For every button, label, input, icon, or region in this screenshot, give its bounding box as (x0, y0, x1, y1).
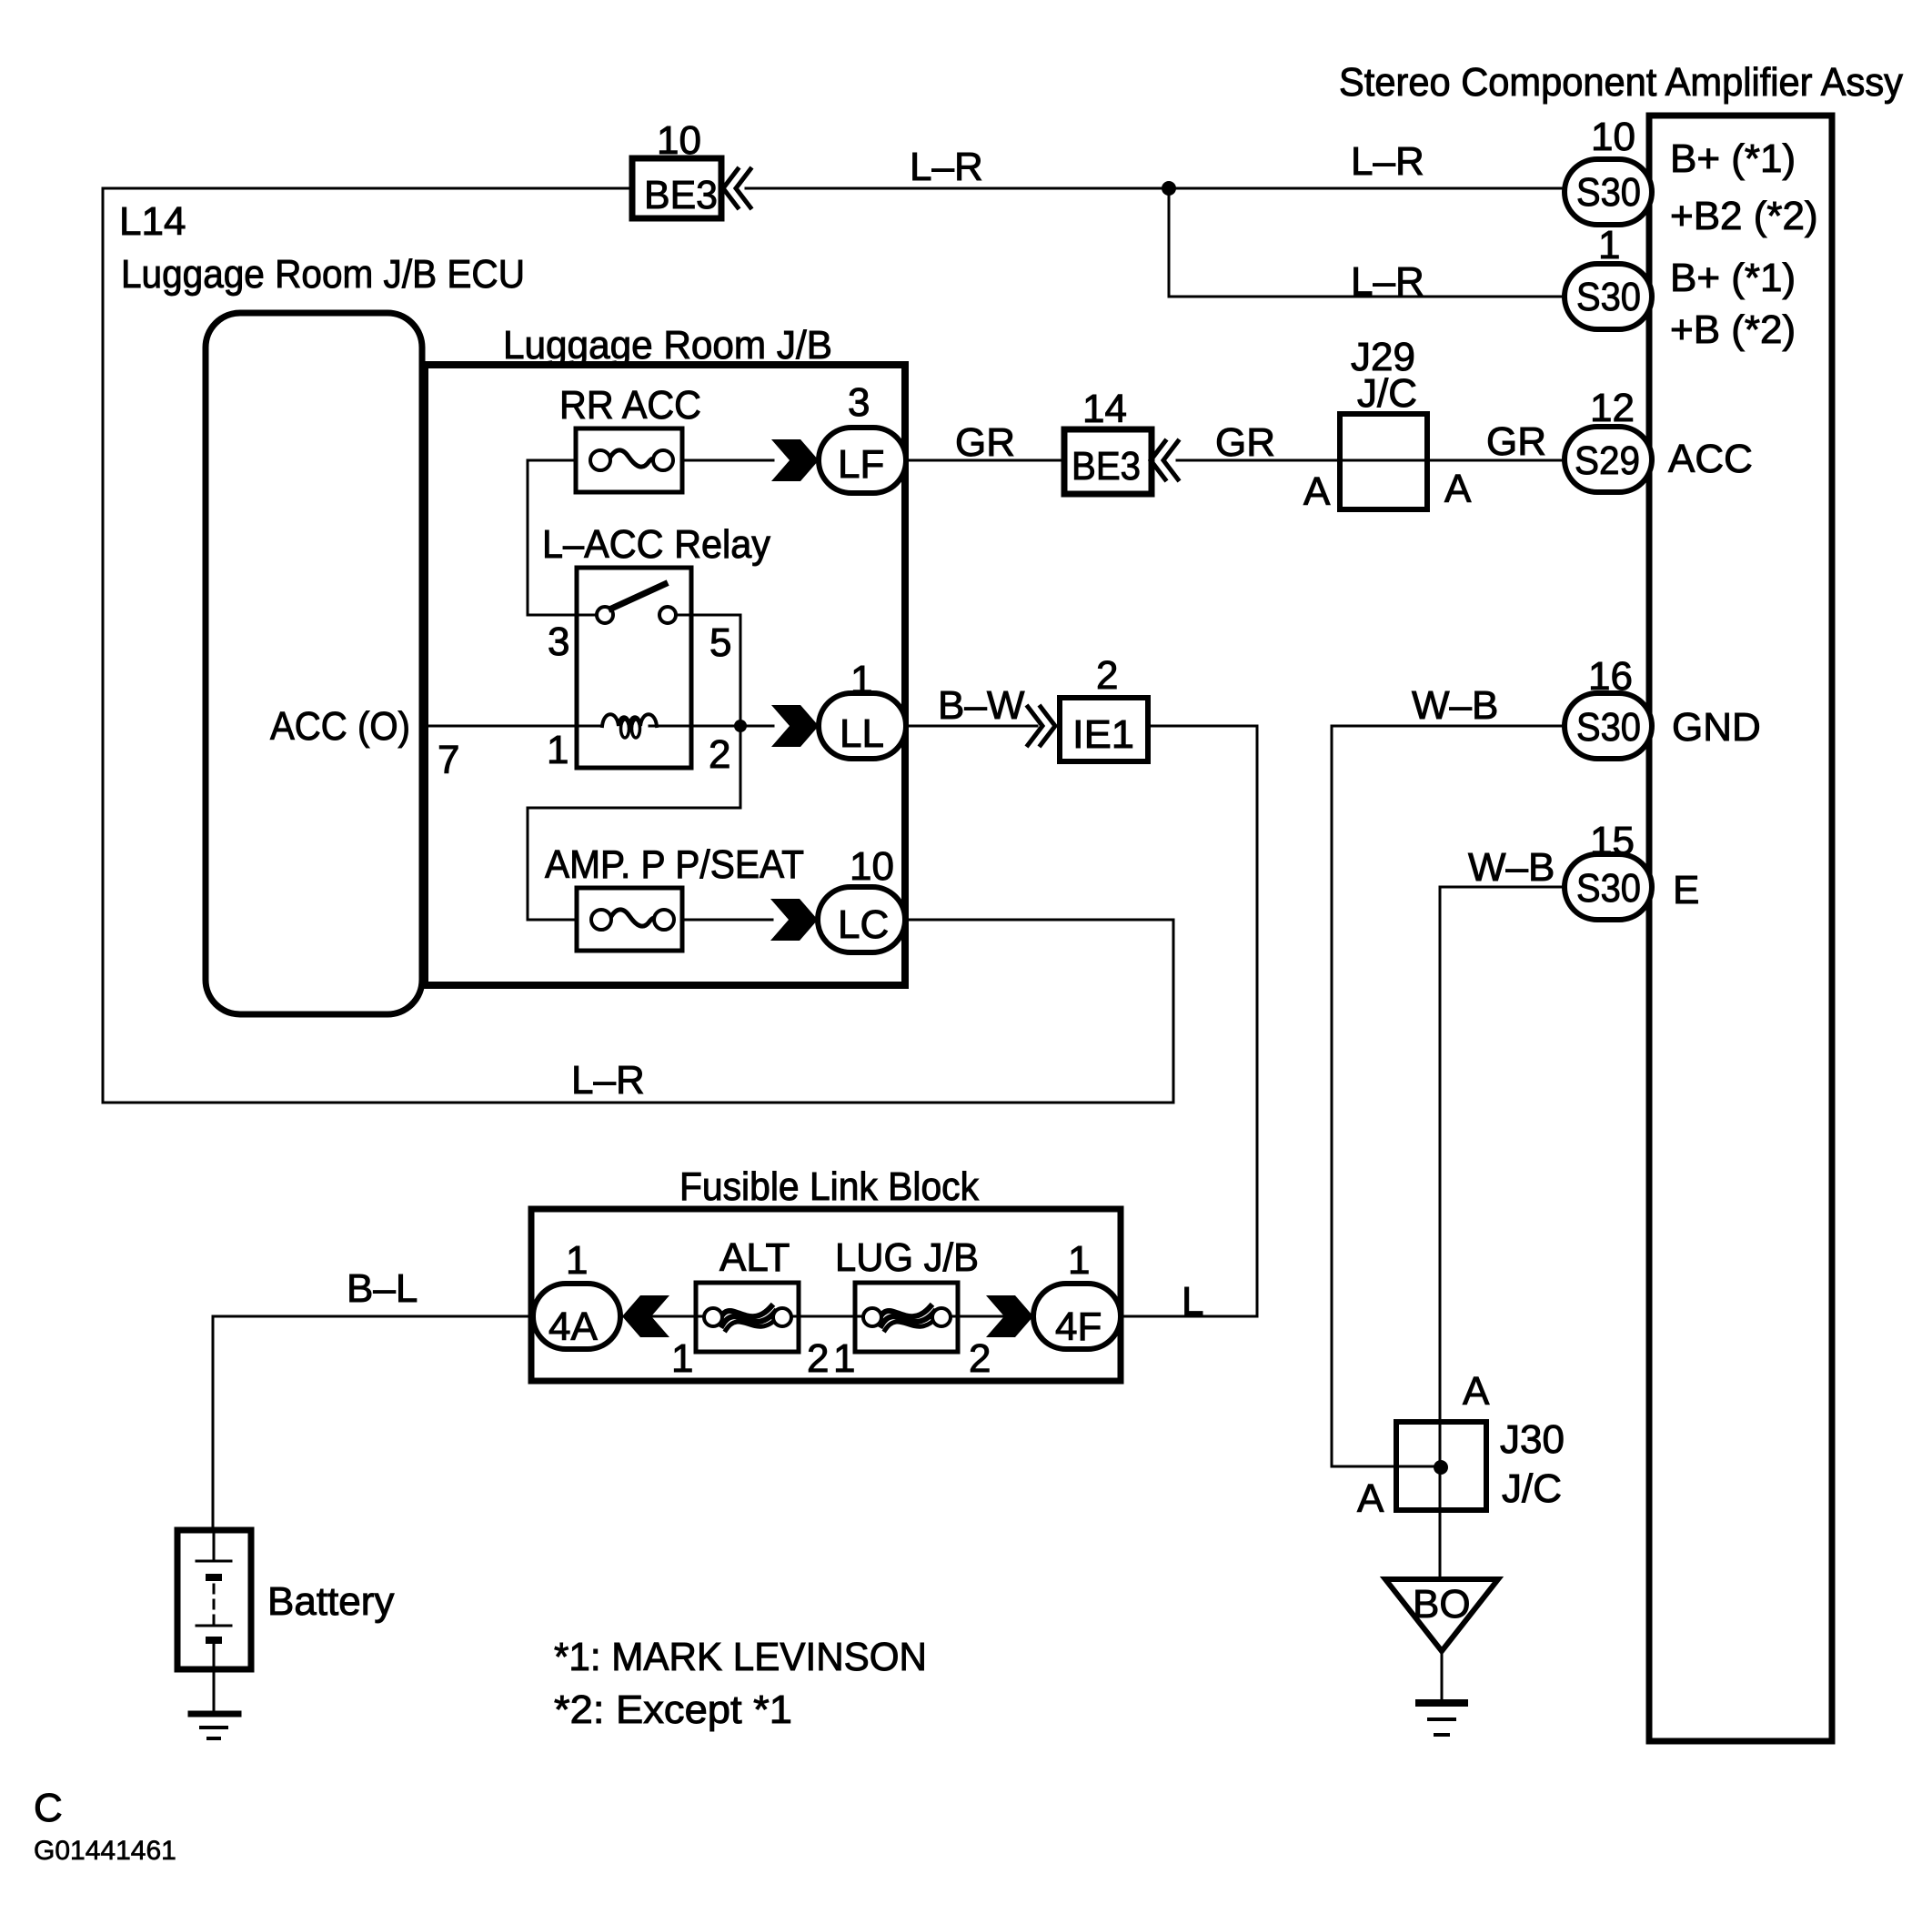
svg-text:10: 10 (850, 844, 894, 889)
svg-text:2: 2 (807, 1336, 829, 1381)
connector oval S30 pin 10 (1565, 159, 1652, 225)
chevrons at IE1 (1028, 707, 1055, 745)
svg-text:1: 1 (1598, 223, 1620, 267)
junction dot relay pin 2 / pin 5 node (734, 720, 747, 732)
junction block: Luggage Room J/B box (425, 365, 905, 985)
svg-text:+B (*2): +B (*2) (1670, 307, 1796, 352)
wire W-B from S30 pin 16 GND down to J30 (1332, 726, 1566, 1466)
svg-text:B+ (*1): B+ (*1) (1670, 136, 1796, 181)
svg-text:B+ (*1): B+ (*1) (1670, 256, 1796, 300)
arrow into 4A (left pointing) (622, 1295, 669, 1337)
junction dot inside J30 (1434, 1460, 1448, 1475)
wire relay coil pin 2 to LL with junction (649, 725, 773, 728)
svg-text:3: 3 (548, 620, 569, 664)
connector oval S30 pin 16 (1565, 693, 1652, 759)
svg-text:A: A (1463, 1369, 1490, 1414)
ground symbol below BO (1419, 1699, 1464, 1707)
ECU block L14 ACC (O) rounded rectangle (206, 313, 422, 1014)
connector oval S30 pin 1 (1565, 264, 1652, 329)
relay switch arm (611, 584, 665, 609)
svg-text:C: C (34, 1786, 63, 1830)
wire L from IE1 pin 2 down to 4F pin 1 (1121, 726, 1257, 1316)
svg-text:Luggage Room J/B: Luggage Room J/B (503, 323, 832, 368)
svg-text:GND: GND (1672, 705, 1761, 750)
svg-text:BE3: BE3 (1072, 444, 1141, 489)
svg-text:*2: Except *1: *2: Except *1 (554, 1687, 792, 1732)
svg-text:2: 2 (709, 732, 730, 777)
svg-text:J/C: J/C (1357, 371, 1417, 416)
chevrons at BE3 pin 14 (1151, 441, 1178, 479)
fuse F1 RR ACC box (576, 428, 682, 492)
fusible link FL1 ALT box (696, 1283, 799, 1352)
svg-text:1: 1 (850, 658, 872, 702)
wire W-B from S30 pin 15 E down through J30 to BO (1440, 887, 1566, 1579)
svg-text:14: 14 (1082, 387, 1127, 431)
wire ACC (O) pin 7 to relay coil pin 1 (422, 725, 602, 728)
junction connector J29 J/C box (1340, 414, 1427, 509)
svg-text:Fusible Link Block: Fusible Link Block (679, 1164, 980, 1209)
svg-text:2: 2 (1096, 653, 1118, 698)
svg-text:L–R: L–R (910, 145, 983, 189)
svg-text:10: 10 (657, 118, 701, 163)
chevrons at BE3 pin 10 (723, 169, 750, 207)
relay coil (602, 714, 657, 726)
battery cell plates (196, 1530, 231, 1561)
svg-text:L–ACC Relay: L–ACC Relay (542, 522, 770, 567)
svg-text:J/C: J/C (1502, 1466, 1562, 1511)
svg-text:RR ACC: RR ACC (559, 383, 701, 428)
fuse F2 AMP. P P/SEAT box (577, 888, 682, 951)
wire B-W from LL to IE1 (906, 725, 1037, 728)
connector oval LC pin 10 (818, 887, 905, 952)
connector oval S30 pin 15 (1565, 854, 1652, 920)
svg-text:S30: S30 (1576, 866, 1641, 911)
svg-text:12: 12 (1590, 386, 1635, 430)
connector oval 4A pin 1 (533, 1284, 620, 1349)
wire B-L from battery to 4A pin 1 (213, 1316, 533, 1530)
svg-text:A: A (1444, 467, 1472, 511)
svg-text:1: 1 (671, 1336, 693, 1381)
svg-text:1: 1 (566, 1238, 588, 1283)
fusible link element LUG J/B (879, 1306, 931, 1320)
connector oval S29 pin 12 (1565, 427, 1652, 492)
svg-text:GR: GR (1215, 420, 1275, 465)
svg-text:5: 5 (709, 620, 731, 665)
svg-text:7: 7 (438, 738, 459, 782)
svg-text:16: 16 (1588, 654, 1633, 699)
wire L-R from BE3 pin 10 to S30 pin 10 (746, 187, 1566, 190)
battery box (177, 1530, 251, 1669)
svg-text:1: 1 (547, 728, 569, 772)
svg-text:A: A (1357, 1476, 1384, 1521)
wire LUG J/B to 4F (950, 1315, 1033, 1318)
svg-text:S30: S30 (1576, 170, 1641, 215)
wire AMP fuse output to LC (682, 919, 772, 922)
svg-text:4F: 4F (1055, 1304, 1102, 1349)
wire relay pin 5 down and around to AMP. P P/SEAT fuse input (528, 615, 740, 920)
connector BE3 pin 10 box (632, 158, 721, 218)
svg-text:L: L (1182, 1279, 1203, 1324)
wire L-R branch from junction down to S30 pin 1 (1169, 188, 1566, 297)
arrow into LC (770, 899, 818, 941)
svg-text:L–R: L–R (1351, 259, 1424, 304)
svg-text:LF: LF (838, 442, 884, 487)
fusible link element ALT (719, 1306, 771, 1320)
svg-text:L14: L14 (119, 199, 186, 244)
svg-text:15: 15 (1590, 819, 1635, 863)
svg-text:ACC: ACC (1668, 437, 1753, 481)
svg-text:ALT: ALT (719, 1235, 790, 1280)
fuse element AMP. P P/SEAT (609, 910, 657, 926)
fusible link FL2 LUG J/B box (855, 1283, 958, 1352)
svg-text:A: A (1303, 469, 1331, 514)
svg-text:L–R: L–R (1351, 139, 1424, 184)
svg-text:AMP. P P/SEAT: AMP. P P/SEAT (545, 842, 804, 887)
arrow into LF (771, 439, 819, 481)
ground symbol below battery (191, 1711, 238, 1717)
svg-text:GR: GR (955, 420, 1015, 465)
svg-text:3: 3 (848, 380, 870, 425)
svg-text:Battery: Battery (267, 1579, 394, 1624)
svg-text:LL: LL (840, 711, 884, 756)
wire L-R net: LC output loop around left side up to BE3 pin 10 (103, 188, 1173, 1103)
wire relay pin 3 to RR ACC fuse input (528, 460, 597, 615)
svg-text:LC: LC (838, 902, 889, 947)
connector BE3 pin 14 box (1064, 429, 1152, 494)
svg-text:+B2 (*2): +B2 (*2) (1670, 194, 1818, 238)
relay K1 L-ACC Relay box (577, 568, 691, 768)
connector oval LF pin 3 (819, 428, 906, 493)
svg-text:W–B: W–B (1468, 845, 1555, 890)
wire inside fusible link block 4A to ALT (620, 1315, 704, 1318)
relay contact pin 3 (597, 607, 613, 623)
svg-text:L–R: L–R (571, 1058, 645, 1103)
arrow into 4F (986, 1295, 1033, 1337)
svg-text:S29: S29 (1575, 438, 1640, 483)
svg-text:B–L: B–L (347, 1266, 418, 1311)
amplifier U: Stereo Component Amplifier Assy box (1649, 116, 1832, 1741)
fuse element RR ACC (609, 450, 656, 467)
svg-text:BE3: BE3 (644, 173, 718, 217)
svg-text:G01441461: G01441461 (34, 1836, 176, 1866)
svg-text:BO: BO (1413, 1582, 1471, 1627)
svg-text:GR: GR (1486, 419, 1546, 464)
svg-text:Luggage Room J/B ECU: Luggage Room J/B ECU (121, 252, 525, 297)
relay contact pin 5 (659, 607, 676, 623)
wire battery negative to ground (213, 1669, 216, 1714)
junction connector J30 J/C box (1396, 1422, 1486, 1510)
svg-text:J30: J30 (1500, 1417, 1565, 1462)
svg-text:Stereo Component Amplifier Ass: Stereo Component Amplifier Assy (1339, 60, 1903, 105)
arrow into LL (771, 705, 819, 747)
svg-text:B–W: B–W (938, 683, 1025, 728)
svg-text:W–B: W–B (1412, 683, 1498, 728)
connector IE1 pin 2 box (1060, 698, 1148, 761)
connector oval LL pin 1 (819, 693, 906, 759)
wire GR from LF through BE3 pin 14 and J29 to S29 (906, 459, 1064, 462)
svg-text:1: 1 (1068, 1238, 1090, 1283)
svg-text:10: 10 (1591, 115, 1635, 159)
wire RR ACC fuse output to LF (682, 459, 773, 462)
svg-text:2: 2 (969, 1336, 991, 1381)
svg-text:4A: 4A (548, 1304, 598, 1349)
svg-text:E: E (1673, 868, 1699, 912)
ground triangle BO (1385, 1579, 1498, 1651)
svg-text:S30: S30 (1576, 705, 1641, 750)
svg-text:IE1: IE1 (1072, 712, 1134, 757)
wire ALT to LUG J/B (791, 1315, 863, 1318)
connector oval 4F pin 1 (1033, 1284, 1121, 1349)
svg-text:*1: MARK LEVINSON: *1: MARK LEVINSON (554, 1635, 927, 1679)
junction dot at L-R split (1162, 181, 1176, 196)
svg-text:LUG J/B: LUG J/B (835, 1235, 979, 1280)
wire BO to ground (1441, 1651, 1444, 1703)
svg-text:1: 1 (833, 1336, 855, 1381)
fusible link block box (531, 1209, 1121, 1381)
svg-text:ACC (O): ACC (O) (270, 704, 410, 749)
svg-text:S30: S30 (1576, 275, 1641, 319)
